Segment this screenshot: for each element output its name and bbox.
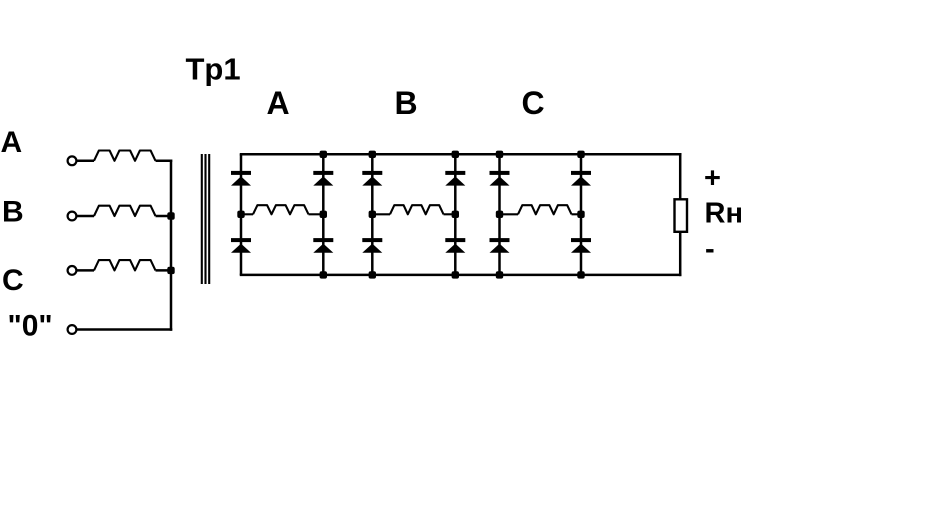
junction: bottom bus at x=372 (369, 271, 376, 278)
diode cell A left top (231, 171, 251, 186)
load resistor Rн (675, 199, 688, 232)
junction: bottom bus at x=323 (320, 271, 327, 278)
wire: cell B right rail (454, 154, 457, 275)
diode cell C right top (571, 171, 591, 186)
transformer Tp1 core (three bars) (202, 154, 209, 284)
wire: primary winding B to neutral bus (156, 215, 173, 218)
wire: cell C right rail (580, 154, 583, 275)
wire: negative bottom bus (240, 274, 682, 277)
junction: cell C inductor right node (577, 211, 584, 218)
junction: cell B inductor left node (369, 211, 376, 218)
wire: cell A inductor right lead (309, 213, 324, 215)
wire: terminal C to primary winding C (76, 269, 94, 272)
svg-text:C: C (521, 85, 544, 121)
junction: top bus at x=500 (496, 151, 503, 158)
svg-text:"0": "0" (8, 310, 53, 343)
junction: cell A inductor left node (237, 211, 244, 218)
wire: primary star bus (vertical) (170, 160, 173, 331)
junction: bottom bus at x=500 (496, 271, 503, 278)
junction: cell B inductor right node (452, 211, 459, 218)
wire: load resistor down to bottom bus (679, 232, 682, 276)
svg-text:C: C (2, 264, 24, 297)
wire: cell B inductor left lead (372, 213, 390, 215)
junction: top bus at x=323 (320, 151, 327, 158)
smoothing inductor, cell C (518, 205, 572, 214)
diode cell B right bottom (445, 238, 465, 253)
junction: top bus at x=372 (369, 151, 376, 158)
svg-text:Tp1: Tp1 (186, 52, 241, 87)
smoothing inductor, cell A (253, 205, 309, 214)
junction: cell C inductor left node (496, 211, 503, 218)
wire: top bus down to load resistor (679, 153, 682, 199)
wire: cell B left rail (371, 154, 374, 275)
wire: positive top bus (240, 153, 682, 156)
wire: primary winding A to neutral bus (156, 160, 173, 163)
wire: terminal A to primary winding A (76, 160, 94, 163)
primary winding A of Tp1 (94, 151, 156, 161)
diode cell C left bottom (490, 238, 510, 253)
diode cell C right bottom (571, 238, 591, 253)
diode cell B right top (445, 171, 465, 186)
primary winding C of Tp1 (94, 260, 156, 270)
input terminal B (68, 212, 77, 221)
input terminal A (68, 156, 77, 165)
diode cell B left bottom (362, 238, 382, 253)
svg-text:A: A (1, 126, 23, 159)
junction: bottom bus at x=581 (577, 271, 584, 278)
diode cell A right top (313, 171, 333, 186)
wire: cell A inductor left lead (241, 213, 253, 215)
wire: cell A right rail (322, 154, 325, 275)
svg-text:-: - (705, 234, 715, 266)
svg-text:Rн: Rн (705, 198, 743, 230)
junction: top bus at x=455 (452, 151, 459, 158)
wire: cell C left rail (498, 154, 501, 275)
wire: cell C inductor right lead (572, 213, 582, 215)
wire: primary winding C to neutral bus (156, 269, 173, 272)
svg-text:B: B (394, 85, 417, 121)
wire: cell A left rail (240, 154, 243, 275)
smoothing inductor, cell B (390, 205, 444, 214)
primary winding B of Tp1 (94, 206, 156, 216)
svg-text:A: A (266, 85, 289, 121)
wire: terminal "0" to neutral bus (76, 328, 172, 331)
wire: cell B inductor right lead (444, 213, 456, 215)
wire: terminal B to primary winding B (76, 215, 94, 218)
junction: bottom bus at x=455 (452, 271, 459, 278)
wire: cell C inductor left lead (500, 213, 519, 215)
diode cell B left top (362, 171, 382, 186)
svg-text:B: B (2, 196, 24, 229)
input terminal C (68, 266, 77, 275)
junction: top bus at x=581 (577, 151, 584, 158)
diode cell A left bottom (231, 238, 251, 253)
diode cell C left top (490, 171, 510, 186)
junction: winding B on star bus (167, 212, 174, 219)
diode cell A right bottom (313, 238, 333, 253)
junction: cell A inductor right node (320, 211, 327, 218)
input terminal "0" (68, 325, 77, 334)
svg-text:+: + (704, 163, 721, 195)
junction: winding C on star bus (167, 267, 174, 274)
